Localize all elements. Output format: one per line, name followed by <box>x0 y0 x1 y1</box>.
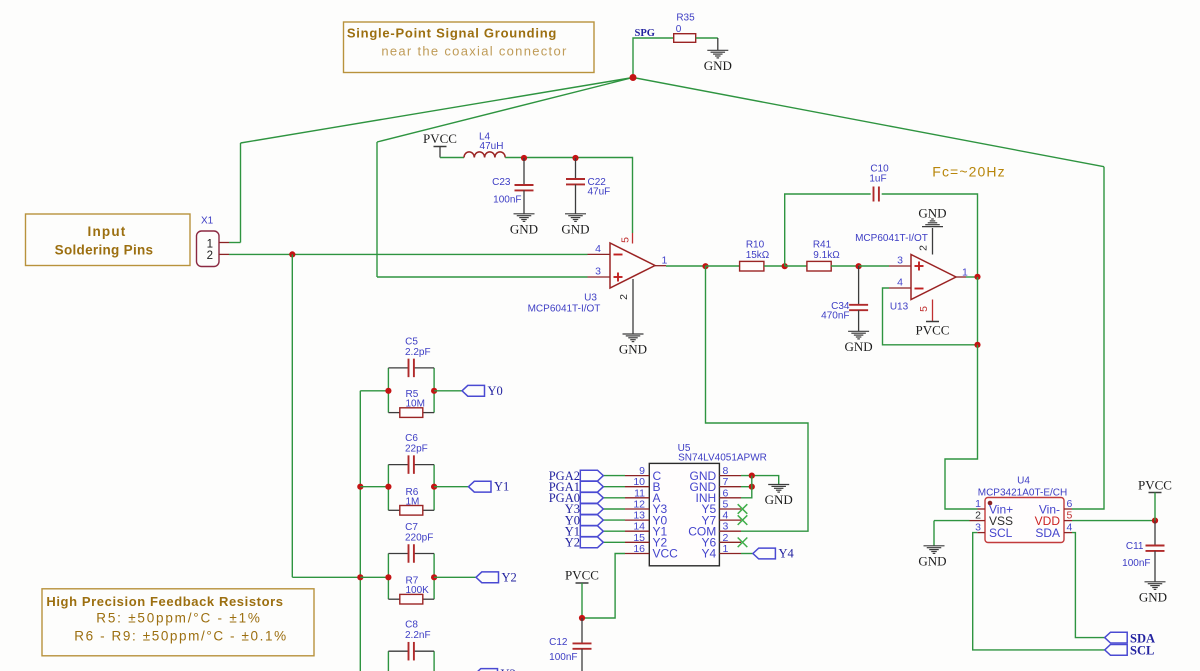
svg-text:C12: C12 <box>549 637 568 648</box>
wire COM to U3 output <box>706 266 809 531</box>
no-connect Y7 <box>738 515 748 525</box>
svg-text:R41: R41 <box>813 240 832 251</box>
wire right rail to U4 Vin- <box>1072 167 1104 509</box>
svg-text:3: 3 <box>975 522 981 534</box>
power PVCC (L4) <box>434 146 447 148</box>
svg-text:9.1kΩ: 9.1kΩ <box>813 250 840 261</box>
svg-text:VCC: VCC <box>653 547 679 561</box>
wire C12 top lead <box>581 618 583 643</box>
pin U3-5 <box>632 233 634 244</box>
wire C34 bottom lead <box>858 310 860 331</box>
pin U5-14 (Y1) <box>625 530 649 532</box>
svg-text:Soldering Pins: Soldering Pins <box>55 243 154 258</box>
svg-text:High Precision Feedback Resist: High Precision Feedback Resistors <box>46 594 283 609</box>
svg-text:5: 5 <box>918 306 930 312</box>
capacitor C7 <box>409 544 414 563</box>
wire C23 bottom lead <box>523 190 525 213</box>
svg-text:4: 4 <box>595 243 601 255</box>
wire rail to C6 block <box>360 486 388 488</box>
pin U5-12 (Y3) <box>625 508 649 510</box>
pin U5-4 (Y7) <box>719 519 741 521</box>
resistor R35 <box>674 34 696 43</box>
wire U13 out <box>966 276 978 278</box>
wire C5 block left <box>387 368 389 413</box>
node PVCC/C12 junction <box>579 615 585 621</box>
svg-text:1: 1 <box>723 543 729 555</box>
hierarchical label Y2 <box>476 572 499 583</box>
node C7 left <box>385 574 391 580</box>
pin U5-6 (INH) <box>719 497 741 499</box>
comment box: High Precision Feedback Resistors <box>42 589 314 656</box>
svg-text:470nF: 470nF <box>821 311 849 322</box>
svg-text:1M: 1M <box>406 496 420 507</box>
svg-text:2: 2 <box>723 532 729 544</box>
svg-text:Single-Point Signal Grounding: Single-Point Signal Grounding <box>347 26 557 41</box>
svg-text:SCL: SCL <box>1130 644 1154 658</box>
wire C8 lead left <box>388 650 408 652</box>
node feedback junction <box>974 342 980 348</box>
hierarchical label Y3 <box>580 504 603 515</box>
pin U4-1 Vin+ <box>978 508 986 510</box>
svg-text:R5: ±50ppm/°C - ±1%: R5: ±50ppm/°C - ±1% <box>96 611 261 626</box>
svg-text:5: 5 <box>620 237 632 243</box>
pin U3-3 <box>588 276 611 278</box>
svg-text:4: 4 <box>897 277 903 289</box>
wire tag Y0 to U5 <box>603 519 625 521</box>
svg-text:GND: GND <box>704 58 732 73</box>
svg-text:Y2: Y2 <box>502 570 517 584</box>
wire PVCC stub (U4) <box>1154 493 1156 521</box>
pin U13-2 / wire to GND <box>932 228 934 255</box>
svg-text:Y1: Y1 <box>494 480 509 494</box>
svg-text:2: 2 <box>975 510 981 522</box>
svg-text:GND: GND <box>619 342 647 357</box>
svg-text:Y4: Y4 <box>779 547 795 561</box>
svg-text:100K: 100K <box>406 585 430 596</box>
svg-text:10M: 10M <box>406 399 425 410</box>
hierarchical label PGA2 <box>580 470 603 481</box>
wire tag Y1 to U5 <box>603 530 625 532</box>
wire R7 lead left <box>388 598 399 600</box>
ground GND (U3) <box>623 334 644 342</box>
wire GND drop <box>717 38 719 50</box>
svg-text:16: 16 <box>633 543 645 555</box>
hierarchical label PGA1 <box>580 481 603 492</box>
svg-text:100nF: 100nF <box>493 195 521 206</box>
svg-text:1: 1 <box>207 239 213 251</box>
svg-text:C8: C8 <box>405 620 418 631</box>
wire pin7 to junction <box>741 486 752 488</box>
wire INH tie <box>741 476 752 498</box>
pin U5-16 (VCC) <box>625 553 649 555</box>
wire C11 bottom lead <box>1154 551 1156 582</box>
svg-text:Y3: Y3 <box>501 667 516 671</box>
capacitor C34 <box>849 305 868 310</box>
pin X1-2 <box>219 253 229 255</box>
wire C5 lead right <box>414 367 434 369</box>
hierarchical label SDA <box>1105 632 1128 643</box>
node RC rail junction 1 <box>357 484 363 490</box>
svg-text:PVCC: PVCC <box>565 568 599 583</box>
comment box: Single-Point Signal Grounding <box>344 22 595 73</box>
capacitor C8 <box>409 642 414 661</box>
svg-text:3: 3 <box>595 266 601 278</box>
svg-text:2: 2 <box>207 250 213 262</box>
wire C34 top lead <box>858 266 860 305</box>
svg-text:U4: U4 <box>1017 476 1030 487</box>
wire U13 feedback loop <box>883 277 978 345</box>
hierarchical label PGA0 <box>580 492 603 503</box>
wire C8 block left <box>387 651 389 671</box>
wire X1 pin1 riser <box>240 143 242 243</box>
svg-text:2.2pF: 2.2pF <box>405 347 431 358</box>
wire roof diagonals left <box>241 78 634 144</box>
wire tag PGA2 to U5 <box>603 475 625 477</box>
pin U5-15 (Y2) <box>625 541 649 543</box>
svg-text:SN74LV4051APWR: SN74LV4051APWR <box>678 453 767 464</box>
svg-text:GND: GND <box>510 221 538 236</box>
no-connect Y5 <box>738 504 748 514</box>
capacitor C23 <box>515 185 534 190</box>
capacitor C22 <box>566 179 585 184</box>
pin U5-7 (GND) <box>719 486 741 488</box>
wire U5 VCC to PVCC rail <box>582 554 625 619</box>
svg-text:Y2: Y2 <box>565 536 580 550</box>
pin U5-5 (Y5) <box>719 508 741 510</box>
ground GND (C23) <box>514 214 535 222</box>
hierarchical label Y2 <box>580 537 603 548</box>
hierarchical label Y3 <box>475 669 498 671</box>
svg-text:3: 3 <box>897 255 903 267</box>
svg-text:C7: C7 <box>405 522 418 533</box>
wire C7 lead left <box>388 553 408 555</box>
wire R6 lead left <box>388 509 399 511</box>
wire R5 lead left <box>388 412 399 414</box>
svg-text:Y4: Y4 <box>702 547 717 561</box>
svg-text:Input: Input <box>88 224 127 239</box>
wire VSS drop <box>933 521 935 546</box>
svg-text:Y0: Y0 <box>488 384 503 398</box>
ground GND (U5) <box>768 485 789 493</box>
wire C6 block left <box>387 465 389 511</box>
pin U4-2 VSS <box>970 520 986 522</box>
node C5 right <box>431 388 437 394</box>
wire to R41 <box>785 265 807 267</box>
wire to R10 <box>706 265 740 267</box>
no-connect Y6 <box>738 538 748 548</box>
svg-text:47uF: 47uF <box>588 187 611 198</box>
pin U3-2 / wire to GND <box>632 279 634 334</box>
wire C5 block right <box>433 368 435 413</box>
resistor R10 <box>740 261 764 271</box>
svg-text:GND: GND <box>561 221 589 236</box>
capacitor C5 <box>409 359 414 378</box>
wire to tag Y2 <box>434 576 476 578</box>
svg-text:C23: C23 <box>492 177 511 188</box>
node VDD/PVCC junction <box>1152 518 1158 524</box>
resistor R41 <box>807 261 831 271</box>
pin U5-3 (COM) <box>719 530 741 532</box>
svg-text:SDA: SDA <box>1035 526 1060 540</box>
wire C22 top lead <box>575 158 577 179</box>
svg-text:X1: X1 <box>201 216 214 227</box>
wire SDA net <box>1072 533 1105 638</box>
svg-text:MCP6041T-I/OT: MCP6041T-I/OT <box>528 304 601 315</box>
wire SPG node to R35 <box>633 38 674 78</box>
ground GND (C34) <box>848 331 869 339</box>
wire C8 lead right <box>414 650 434 652</box>
hierarchical label Y4 <box>753 548 776 559</box>
wire to U3 pin3 <box>377 276 588 278</box>
wire to tag Y0 <box>434 390 462 392</box>
svg-text:C6: C6 <box>405 433 418 444</box>
wire input to feedback rail <box>291 254 293 577</box>
node U3 output junction <box>702 263 708 269</box>
op-amp U13 <box>911 255 956 300</box>
pin U4-4 SDA <box>1064 532 1072 534</box>
pin U5-1 (Y4) <box>719 553 741 555</box>
svg-text:Fc=~20Hz: Fc=~20Hz <box>932 164 1005 180</box>
pin U5-9 (C) <box>625 475 649 477</box>
svg-text:220pF: 220pF <box>405 533 433 544</box>
pin U4-3 SCL <box>977 532 985 534</box>
wire C7 block left <box>387 554 389 600</box>
node C34 tap <box>856 263 862 269</box>
ground GND (R35) <box>707 50 728 58</box>
pin U5-13 (Y0) <box>625 519 649 521</box>
node U5 gnd junction 2 <box>749 484 755 490</box>
svg-text:1: 1 <box>662 255 668 267</box>
wire L4 to U3 pin5 <box>505 158 632 234</box>
node C22 tap <box>572 155 578 161</box>
wire X1 pin1 <box>229 242 241 244</box>
wire C22 bottom lead <box>575 184 577 213</box>
wire tag PGA1 to U5 <box>603 486 625 488</box>
wire R35 to GND <box>696 37 718 39</box>
svg-text:U3: U3 <box>584 293 597 304</box>
power PVCC (U13) <box>926 321 939 323</box>
wire to tag Y1 <box>434 486 468 488</box>
wire C8 block right <box>433 651 435 671</box>
pin U5-11 (A) <box>625 497 649 499</box>
svg-text:GND: GND <box>765 492 793 507</box>
wire U5 GND pins to ground <box>741 476 779 485</box>
svg-text:PVCC: PVCC <box>1138 478 1172 493</box>
svg-text:GND: GND <box>845 339 873 354</box>
pin U13-4 <box>889 287 911 289</box>
wire tag PGA0 to U5 <box>603 497 625 499</box>
wire tag Y3 to U5 <box>603 508 625 510</box>
wire C7 block right <box>433 554 435 600</box>
svg-text:22pF: 22pF <box>405 444 428 455</box>
wire R41 out <box>831 265 859 267</box>
comment box: Input Soldering Pins <box>26 214 191 266</box>
wire to U4 Vin+ <box>945 345 978 509</box>
svg-text:15kΩ: 15kΩ <box>746 250 770 261</box>
svg-text:near the coaxial connector: near the coaxial connector <box>381 44 567 59</box>
svg-text:6: 6 <box>723 487 729 499</box>
op-amp U3 <box>610 243 655 288</box>
resistor R5 <box>400 408 423 418</box>
pin U5-2 (Y6) <box>719 541 741 543</box>
wire PVCC stub <box>439 147 441 158</box>
wire VDD to PVCC <box>1072 520 1155 522</box>
hierarchical label Y1 <box>469 481 492 492</box>
svg-text:11: 11 <box>634 487 645 499</box>
svg-text:15: 15 <box>633 532 645 544</box>
resistor R6 <box>400 506 423 516</box>
node C7 right <box>431 574 437 580</box>
wire PVCC to junction <box>581 583 583 618</box>
capacitor C12 <box>573 643 592 648</box>
wire C6 block right <box>433 465 435 511</box>
ground GND (C22) <box>565 214 586 222</box>
pin U3-1 output <box>655 265 666 267</box>
svg-text:2: 2 <box>618 294 630 300</box>
node C10 tap <box>782 263 788 269</box>
pin U5-10 (B) <box>625 486 649 488</box>
svg-text:PVCC: PVCC <box>916 323 950 338</box>
svg-text:5: 5 <box>1067 510 1073 522</box>
pin U4-5 VDD <box>1064 520 1072 522</box>
hierarchical label Y1 <box>580 526 603 537</box>
wire VSS to GND <box>934 520 970 522</box>
wire X1 pin2 to U3 pin4 <box>229 253 588 255</box>
capacitor C6 <box>409 455 414 474</box>
node input junction <box>289 251 295 257</box>
svg-text:2.2nF: 2.2nF <box>405 630 431 641</box>
wire tag Y2 to U5 <box>603 541 625 543</box>
node SPG junction <box>630 74 637 81</box>
node C23 tap <box>521 155 527 161</box>
svg-text:C11: C11 <box>1126 541 1144 552</box>
svg-text:GND: GND <box>1139 589 1167 604</box>
wire to RC rail <box>292 576 360 578</box>
wire C23 top lead <box>523 158 525 185</box>
pin U4-6 Vin- <box>1064 508 1072 510</box>
pin U13-3 <box>889 265 911 267</box>
pin U13-1 output <box>956 276 966 278</box>
node U5 gnd junction 1 <box>749 473 755 479</box>
pin X1-1 <box>219 242 229 244</box>
wire C7 lead right <box>414 553 434 555</box>
svg-text:PVCC: PVCC <box>423 131 457 146</box>
wire PVCC to L4 <box>440 157 464 159</box>
svg-text:2: 2 <box>918 245 930 251</box>
hierarchical label Y0 <box>462 385 485 396</box>
node C5 left <box>385 388 391 394</box>
wire C12 bottom lead <box>581 649 583 671</box>
wire Y4 pin to tag <box>741 553 753 555</box>
node C6 left <box>385 484 391 490</box>
wire rail to C5 block <box>360 390 388 392</box>
wire U3 out <box>666 265 706 267</box>
capacitor C10 <box>874 187 879 202</box>
wire C5 lead left <box>388 367 408 369</box>
svg-text:6: 6 <box>1067 498 1073 510</box>
capacitor C11 <box>1146 546 1165 551</box>
ground GND (U4 VSS) <box>924 546 945 554</box>
svg-text:0: 0 <box>676 24 682 35</box>
svg-text:1uF: 1uF <box>869 174 886 185</box>
svg-text:SPG: SPG <box>635 28 655 39</box>
svg-text:U13: U13 <box>890 302 909 313</box>
ground GND (C11) <box>1145 582 1166 590</box>
pin U3-4 <box>588 253 611 255</box>
wire to U13 pin3 <box>859 265 889 267</box>
wire R5 lead right <box>423 412 434 414</box>
node RC rail junction 2 <box>357 574 363 580</box>
wire R7 lead right <box>423 598 434 600</box>
wire C10 left <box>785 194 871 266</box>
node U13 output junction <box>974 274 980 280</box>
svg-text:4: 4 <box>1067 522 1073 534</box>
wire C10 right <box>882 194 978 277</box>
wire C6 lead right <box>414 464 434 466</box>
inductor L4 <box>464 152 505 158</box>
power PVCC (U5) <box>576 582 589 584</box>
wire C6 lead left <box>388 464 408 466</box>
svg-text:SCL: SCL <box>989 526 1013 540</box>
ground GND (U13) <box>922 219 943 227</box>
pin U5-8 (GND) <box>719 475 741 477</box>
wire SCL net <box>973 533 1105 650</box>
wire R10 to R41 <box>764 265 785 267</box>
svg-text:GND: GND <box>918 553 946 568</box>
hierarchical label SCL <box>1105 645 1128 656</box>
svg-text:R35: R35 <box>676 13 695 24</box>
power PVCC (U4) <box>1149 492 1162 494</box>
wire R6 lead right <box>423 509 434 511</box>
svg-text:MCP6041T-I/OT: MCP6041T-I/OT <box>855 233 928 244</box>
svg-text:R6 - R9: ±50ppm/°C - ±0.1%: R6 - R9: ±50ppm/°C - ±0.1% <box>74 629 287 644</box>
wire U3 plus riser <box>376 142 378 277</box>
svg-text:C5: C5 <box>405 336 418 347</box>
pin U13-5 <box>932 300 934 322</box>
svg-text:1: 1 <box>975 498 981 510</box>
wire rail to C7 block <box>360 576 388 578</box>
svg-text:GND: GND <box>918 206 946 221</box>
wire roof diagonal right <box>633 78 1104 167</box>
svg-text:100nF: 100nF <box>549 652 577 663</box>
node C6 right <box>431 484 437 490</box>
hierarchical label Y0 <box>580 515 603 526</box>
wire RC left rail <box>359 391 361 671</box>
svg-text:47uH: 47uH <box>480 141 504 152</box>
svg-text:100nF: 100nF <box>1122 558 1150 569</box>
wire C11 top lead <box>1154 521 1156 546</box>
resistor R7 <box>400 594 423 604</box>
